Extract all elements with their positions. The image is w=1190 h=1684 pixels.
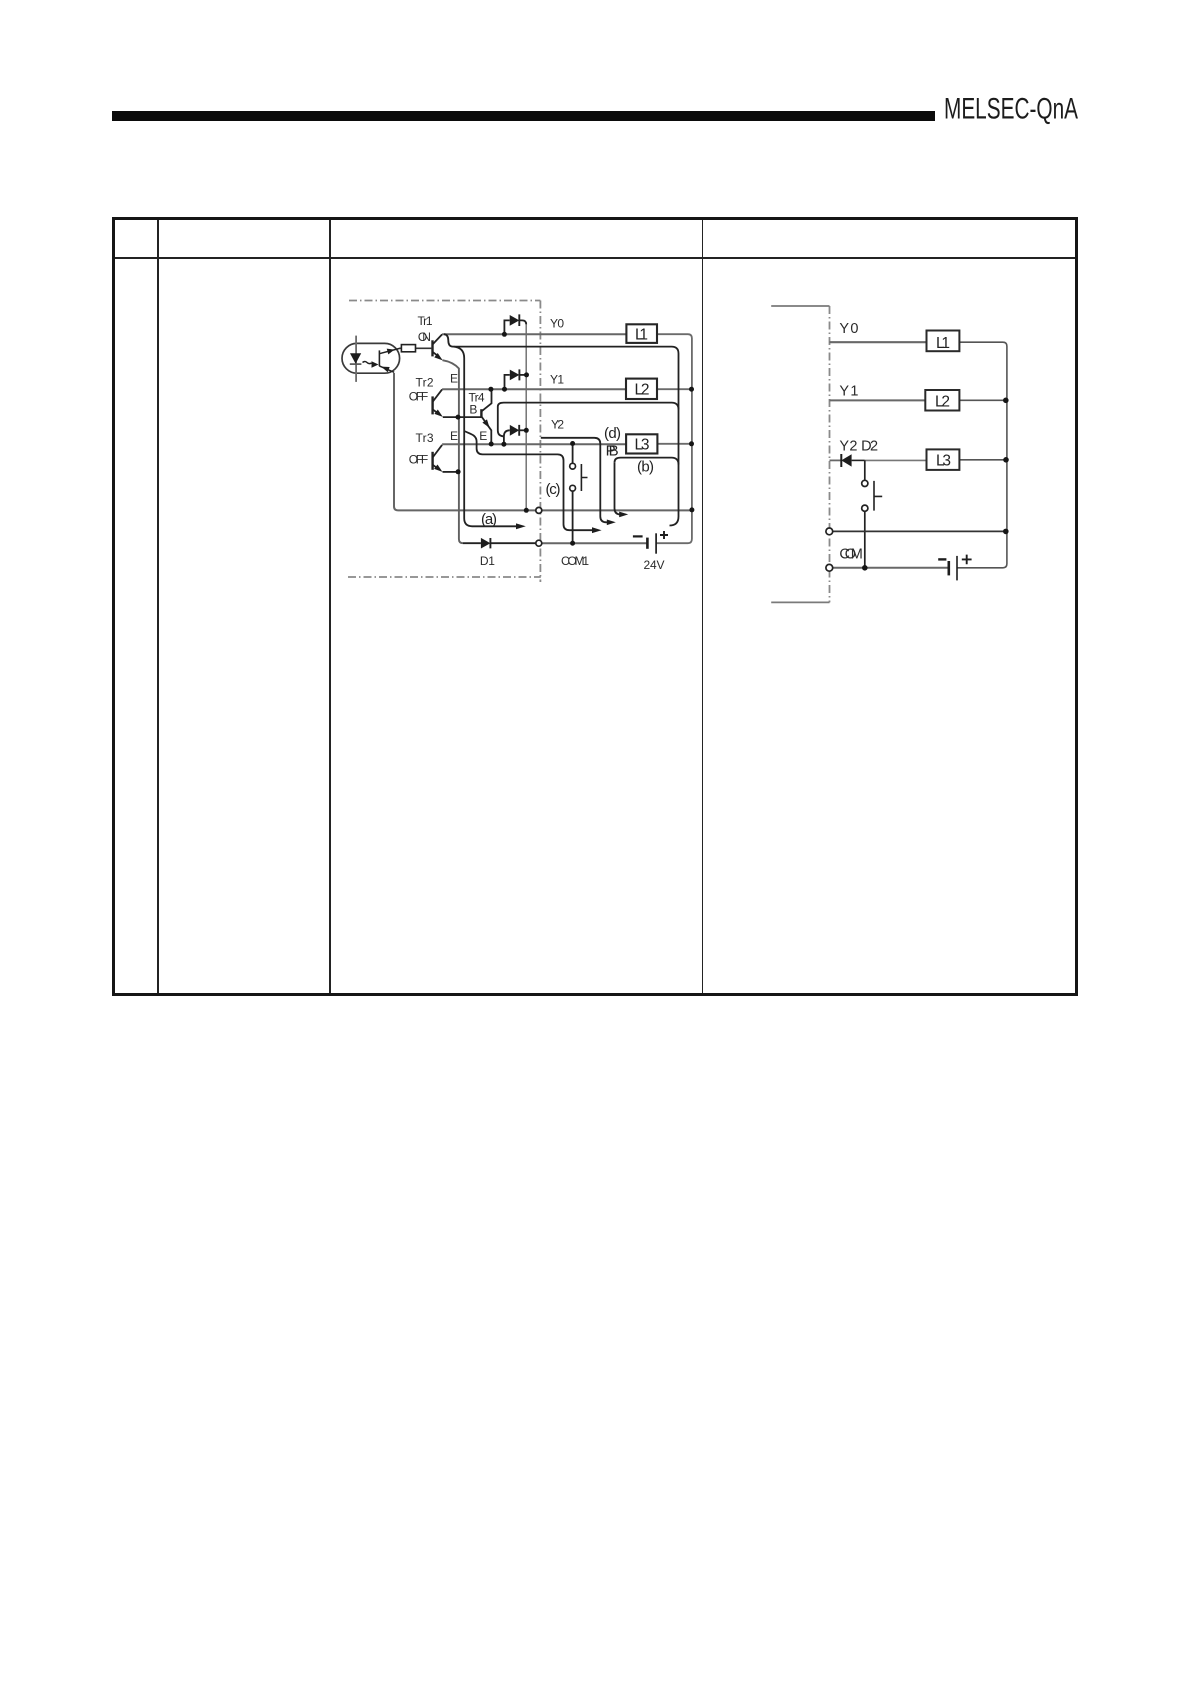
svg-text:OFF: OFF: [409, 390, 429, 404]
svg-text:Tr2: Tr2: [416, 376, 434, 390]
svg-text:Tr3: Tr3: [416, 431, 434, 445]
svg-text:L3: L3: [635, 437, 650, 454]
svg-text:PB: PB: [606, 443, 619, 460]
svg-text:E: E: [450, 372, 458, 386]
svg-text:Y1: Y1: [839, 384, 858, 400]
svg-text:Y0: Y0: [550, 317, 564, 331]
svg-text:Y2: Y2: [839, 439, 857, 455]
svg-text:L2: L2: [635, 382, 650, 399]
svg-text:Tr1: Tr1: [418, 314, 433, 328]
svg-text:Y0: Y0: [839, 321, 858, 337]
svg-text:B: B: [469, 403, 477, 417]
svg-text:E: E: [479, 429, 487, 443]
svg-text:L2: L2: [935, 394, 950, 411]
svg-text:COM1: COM1: [561, 554, 589, 568]
svg-text:(c): (c): [546, 481, 561, 498]
svg-text:ON: ON: [418, 330, 431, 344]
svg-text:COM: COM: [839, 547, 863, 563]
svg-text:MELSEC-QnA: MELSEC-QnA: [944, 93, 1078, 126]
svg-text:Y1: Y1: [550, 373, 564, 387]
svg-text:E: E: [450, 429, 458, 443]
svg-text:D2: D2: [861, 439, 878, 455]
svg-text:(a): (a): [481, 511, 497, 528]
svg-text:(d): (d): [604, 425, 621, 442]
svg-text:OFF: OFF: [409, 453, 429, 467]
svg-text:L1: L1: [936, 335, 950, 352]
svg-text:24V: 24V: [644, 558, 665, 572]
svg-text:L3: L3: [936, 453, 951, 470]
svg-text:(b): (b): [637, 459, 654, 476]
svg-text:D1: D1: [480, 554, 495, 568]
svg-text:L1: L1: [635, 327, 648, 344]
svg-text:Y2: Y2: [551, 418, 564, 432]
